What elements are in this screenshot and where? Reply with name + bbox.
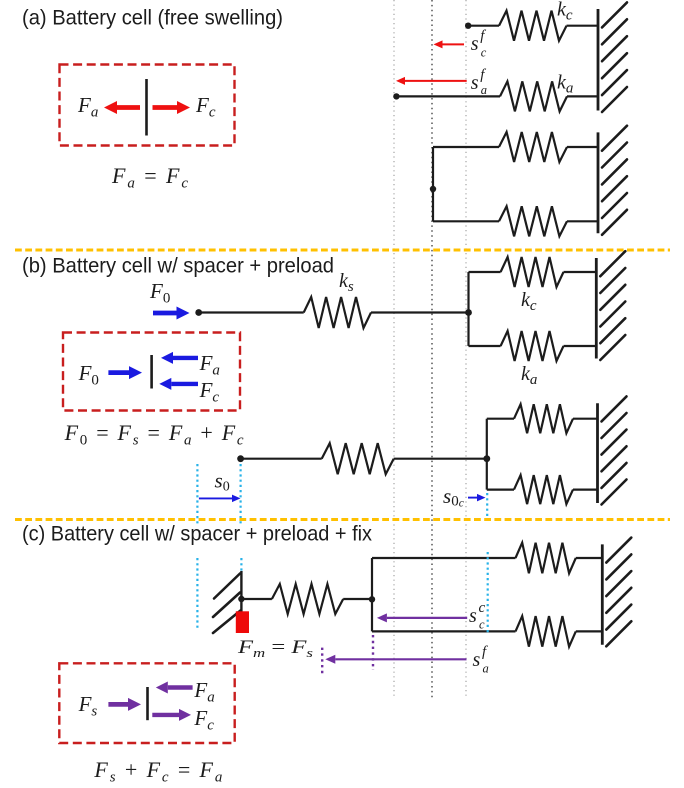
svg-text:F0 = Fs = Fa + Fc: F0 = Fs = Fa + Fc bbox=[64, 420, 244, 449]
node spacer left end (b2) bbox=[237, 455, 244, 462]
svg-text:Fc: Fc bbox=[193, 706, 214, 734]
fixed wall post (c) bbox=[240, 571, 242, 612]
spring kc (b2) bbox=[514, 404, 573, 433]
svg-text:c: c bbox=[481, 46, 487, 60]
svg-text:c: c bbox=[479, 618, 485, 632]
purple guide line (c) bracket bbox=[372, 635, 374, 670]
spring ks (c) bbox=[272, 584, 343, 614]
force arrow F0 (b box, blue right) bbox=[108, 366, 142, 379]
load cell block (c, red) bbox=[236, 611, 249, 633]
node fixed end (c) bbox=[238, 596, 244, 602]
wall (a) bbox=[598, 2, 627, 112]
label kc (a) bbox=[557, 0, 573, 24]
label Fc (c box) bbox=[193, 706, 214, 734]
purple guide line (c) anode ref bbox=[321, 648, 323, 674]
wall (b2) bbox=[598, 396, 627, 504]
node bracket junction (b) bbox=[465, 309, 472, 316]
svg-text:s: s bbox=[473, 649, 481, 671]
wire (a2) bottom lead bbox=[433, 220, 499, 222]
wire (a2) ka to wall bbox=[567, 220, 598, 222]
label s0c (b) bbox=[443, 484, 464, 510]
svg-text:f: f bbox=[480, 28, 486, 44]
label ka (a) bbox=[557, 72, 573, 97]
bracket (b2 cell) bbox=[486, 419, 488, 490]
cyan guide line (c) bracket ref bbox=[487, 552, 489, 633]
spring ks (b) bbox=[304, 297, 371, 328]
spring kc (a) bbox=[499, 11, 567, 41]
svg-text:Fc: Fc bbox=[195, 93, 216, 121]
displacement arrow sa_f (a) bbox=[396, 77, 467, 85]
force arrow Fa (c box, purple left) bbox=[156, 682, 193, 694]
orange dashed separator 1 bbox=[15, 249, 670, 252]
preload arrow F0 (b, blue) bbox=[153, 307, 190, 320]
displacement arrow s0c (b, blue) bbox=[468, 494, 486, 502]
wire (b) kc lead bbox=[469, 271, 501, 273]
wire (b) kc to wall bbox=[564, 271, 597, 273]
wire (b2) ka to wall bbox=[573, 489, 598, 491]
battery cell line (a) bbox=[145, 79, 148, 136]
wire (c) ks to bracket bbox=[343, 598, 372, 600]
dashed red box (c) bbox=[59, 663, 234, 743]
label Fs (c box) bbox=[78, 692, 98, 720]
displacement arrow sc_c (c, purple) bbox=[377, 613, 467, 622]
cyan guide line (c) left bbox=[196, 558, 198, 631]
node joined interface (a) bbox=[430, 186, 436, 192]
svg-text:Fa: Fa bbox=[193, 678, 214, 706]
svg-text:kc: kc bbox=[557, 0, 573, 24]
wire (a) kc to wall bbox=[567, 25, 599, 27]
svg-text:f: f bbox=[482, 644, 488, 660]
wire (b2) ks to bracket bbox=[394, 458, 487, 460]
spring kc (c) bbox=[516, 543, 576, 574]
label Fa (b box) bbox=[199, 351, 220, 379]
wall (c) bbox=[602, 538, 631, 647]
wall (b) bbox=[596, 251, 625, 360]
title (b) bbox=[22, 255, 334, 278]
wire (b2) ka lead bbox=[487, 489, 514, 491]
label Fm = Fs (c) bbox=[237, 637, 313, 660]
bracket (a joined cell) bbox=[432, 147, 434, 221]
svg-text:Fa: Fa bbox=[77, 93, 98, 121]
spring ka (b2) bbox=[514, 475, 573, 504]
cyan guide line s0 left bbox=[196, 464, 198, 524]
svg-text:kc: kc bbox=[521, 289, 537, 314]
svg-text:Fa: Fa bbox=[199, 351, 220, 379]
cyan guide line s0 right bbox=[240, 464, 242, 524]
equation (a) Fa = Fc bbox=[111, 163, 188, 192]
svg-text:Fm = Fs: Fm = Fs bbox=[237, 637, 313, 660]
wall (a2) bbox=[598, 126, 627, 235]
dashed red box (b) bbox=[63, 333, 240, 411]
svg-text:Fc: Fc bbox=[199, 378, 220, 406]
wire (a2) kc to wall bbox=[567, 146, 598, 148]
node spacer left end (b) bbox=[195, 309, 202, 316]
wire (b2) spacer lead bbox=[241, 458, 322, 460]
svg-text:s0: s0 bbox=[215, 469, 230, 495]
vertical reference line (dark gray, cell midplane) bbox=[431, 0, 433, 698]
spring ka (a2) bbox=[499, 206, 567, 236]
wire (b) ka lead bbox=[469, 345, 501, 347]
label s0 (b) bbox=[215, 469, 230, 495]
wire (b2) kc to wall bbox=[573, 418, 598, 420]
label Fa (c box) bbox=[193, 678, 214, 706]
svg-text:Fs: Fs bbox=[78, 692, 98, 720]
label Fc (b box) bbox=[199, 378, 220, 406]
bracket (c cell) bbox=[371, 558, 373, 631]
wire (b) ks to bracket bbox=[371, 311, 469, 313]
label F0 (b preload) bbox=[149, 279, 170, 307]
force arrow Fa (a, red left) bbox=[104, 101, 140, 114]
label Fa (a box) bbox=[77, 93, 98, 121]
dashed red box (a) bbox=[60, 65, 235, 146]
spring ks (b2) bbox=[322, 443, 394, 474]
svg-text:ks: ks bbox=[339, 270, 354, 295]
displacement arrow s0 (b, blue) bbox=[199, 495, 241, 503]
label sa_f (a) bbox=[471, 67, 487, 97]
cyan guide line (c) right bbox=[240, 558, 242, 571]
svg-text:s0c: s0c bbox=[443, 484, 464, 510]
label F0 (b box) bbox=[78, 361, 99, 389]
wire (c) spacer lead bbox=[241, 598, 272, 600]
node bracket junction (b2) bbox=[483, 455, 490, 462]
spring ka (a) bbox=[500, 81, 567, 111]
spring kc (b) bbox=[501, 257, 564, 287]
svg-text:Fa = Fc: Fa = Fc bbox=[111, 163, 188, 192]
label kc (b) bbox=[521, 289, 537, 314]
title (c) bbox=[22, 523, 372, 546]
node cathode free end (a) bbox=[465, 23, 471, 29]
wire (a2) top lead bbox=[433, 146, 499, 148]
wire (a) cathode lead bbox=[468, 25, 499, 27]
svg-text:ka: ka bbox=[557, 72, 573, 97]
svg-text:s: s bbox=[471, 72, 479, 94]
spring kc (a2) bbox=[499, 132, 567, 162]
force arrow Fc (a, red right) bbox=[153, 101, 191, 114]
wire (b) spacer lead bbox=[199, 311, 304, 313]
force arrow Fa (b box, blue left) bbox=[161, 352, 198, 364]
vertical reference line (light gray, anode free position) bbox=[393, 0, 395, 698]
label sc_f (a) bbox=[471, 28, 487, 60]
equation (b) F0 = Fs = Fa + Fc bbox=[64, 420, 244, 449]
equation (c) Fs + Fc = Fa bbox=[93, 757, 222, 786]
cyan guide line s0c bbox=[486, 493, 488, 517]
label ks (b) bbox=[339, 270, 354, 295]
svg-text:a: a bbox=[483, 662, 489, 676]
spring ka (c) bbox=[516, 616, 576, 647]
svg-text:c: c bbox=[479, 600, 486, 616]
svg-text:ka: ka bbox=[521, 363, 537, 388]
wire (a) anode lead bbox=[396, 95, 500, 97]
svg-text:a: a bbox=[481, 83, 487, 97]
svg-text:(c) Battery cell w/ spacer + p: (c) Battery cell w/ spacer + preload + f… bbox=[22, 523, 372, 546]
vertical reference line (light gray, cathode free position) bbox=[465, 0, 467, 698]
label sa_f (c) bbox=[473, 644, 489, 676]
svg-text:F0: F0 bbox=[78, 361, 99, 389]
svg-text:Fs + Fc = Fa: Fs + Fc = Fa bbox=[93, 757, 222, 786]
force arrow Fs (c box, purple right) bbox=[108, 698, 141, 711]
label sc_c (c) bbox=[469, 600, 486, 632]
displacement arrow sc_f (a) bbox=[434, 40, 465, 48]
wire (c) kc lead bbox=[372, 557, 516, 559]
svg-text:(a) Battery cell (free swellin: (a) Battery cell (free swelling) bbox=[22, 7, 283, 30]
node bracket junction (c) bbox=[369, 596, 375, 602]
label Fc (a box) bbox=[195, 93, 216, 121]
force arrow Fc (c box, purple right) bbox=[152, 709, 191, 721]
wire (c) kc to wall bbox=[576, 557, 603, 559]
displacement arrow sa_f (c, purple) bbox=[325, 655, 466, 664]
fixed wall hatches (c) bbox=[213, 574, 241, 634]
battery cell line (b) bbox=[150, 355, 153, 389]
orange dashed separator 2 bbox=[15, 518, 670, 521]
force arrow Fc (b box, blue left) bbox=[159, 378, 198, 390]
battery cell line (c) bbox=[146, 687, 149, 720]
svg-text:(b) Battery cell w/ spacer + p: (b) Battery cell w/ spacer + preload bbox=[22, 255, 334, 278]
wire (c) ka to wall bbox=[576, 630, 603, 632]
svg-text:f: f bbox=[480, 67, 486, 83]
node anode free end (a) bbox=[393, 93, 399, 99]
svg-text:s: s bbox=[471, 33, 479, 55]
title (a) bbox=[22, 7, 283, 30]
wire (c) ka lead bbox=[372, 630, 516, 632]
spring ka (b) bbox=[501, 331, 564, 361]
wire (b2) kc lead bbox=[487, 418, 514, 420]
wire (a) ka to wall bbox=[567, 95, 598, 97]
label ka (b) bbox=[521, 363, 537, 388]
bracket (b cell) bbox=[467, 272, 469, 346]
wire (b) ka to wall bbox=[564, 345, 597, 347]
svg-text:F0: F0 bbox=[149, 279, 170, 307]
svg-text:s: s bbox=[469, 605, 477, 627]
